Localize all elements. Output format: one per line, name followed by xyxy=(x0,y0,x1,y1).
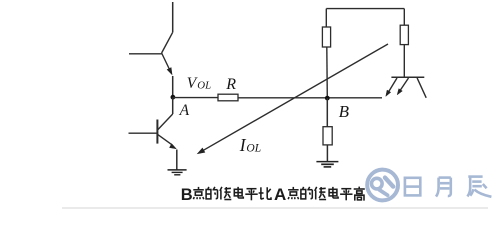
transistor Q2 right slant lead xyxy=(417,78,426,98)
watermark glyph: 月 xyxy=(436,178,451,197)
transistor Q1 emitter with arrow xyxy=(158,135,177,149)
caption glyph: 平 (2nd) xyxy=(340,189,352,201)
wire: emitter to ground xyxy=(176,150,178,170)
wire: top rail down to resistor R4 xyxy=(403,9,405,26)
wire: node A to resistor R xyxy=(173,97,218,99)
svg-text:A: A xyxy=(179,102,190,119)
resistor R4 (right pull-up) xyxy=(400,25,408,44)
svg-text:OL: OL xyxy=(246,143,261,155)
transistor Q1 collector lead xyxy=(158,114,173,130)
caption glyph: 点 (2nd) xyxy=(288,187,299,199)
caption glyph: 比 xyxy=(259,187,271,199)
label VOL xyxy=(187,75,211,92)
wire: node A down to transistor collector xyxy=(172,97,174,114)
wire: resistor R4 down to multi-emitter transistor Q2 xyxy=(403,45,405,78)
caption glyph: 的 (1st) xyxy=(206,187,217,199)
caption text: A (latin) xyxy=(274,185,286,204)
watermark logo: handle stroke xyxy=(379,190,387,195)
caption glyph: 高 xyxy=(354,187,365,201)
watermark glyph: 辰 xyxy=(467,177,491,197)
caption glyph: 电 (1st) xyxy=(234,187,243,198)
label IOL xyxy=(239,135,261,155)
watermark glyph: 日 xyxy=(405,178,420,196)
watermark logo: slash stroke xyxy=(385,178,393,187)
IOL current arrow (long diagonal) xyxy=(198,44,389,154)
wire: horizontal base lead going left (upper-left) xyxy=(129,53,162,55)
emitter arrow of upper transistor pointing to node A branch xyxy=(162,53,172,75)
resistor R3 (node B to ground) xyxy=(323,127,332,145)
caption glyph: 电 (2nd) xyxy=(329,187,338,198)
label R xyxy=(225,76,236,93)
transistor Q1 base bar xyxy=(156,120,158,144)
label A xyxy=(179,102,190,119)
svg-text:A: A xyxy=(274,185,286,204)
transistor Q1 base lead xyxy=(129,132,158,134)
faint bottom rule xyxy=(62,207,488,209)
resistor R xyxy=(218,94,238,101)
wire: resistor R3 to ground xyxy=(326,145,328,162)
transistor Q2 emitter 1 with arrow xyxy=(386,78,397,96)
caption glyph: 点 (1st) xyxy=(193,187,204,199)
watermark logo: inner small circle xyxy=(372,178,383,189)
svg-text:B: B xyxy=(181,186,193,204)
caption glyph: 的 (2nd) xyxy=(301,187,312,199)
node B junction dot xyxy=(325,96,330,101)
wire: top emitter lead vertical (upper-left transistor) xyxy=(172,2,174,32)
transistor Q2 emitter 2 with arrow xyxy=(397,78,408,95)
svg-text:OL: OL xyxy=(197,79,211,91)
svg-text:R: R xyxy=(225,76,236,93)
ground (left, under Q1) xyxy=(168,170,187,175)
svg-text:V: V xyxy=(187,75,198,92)
wire: top rail down to resistor R2 xyxy=(325,9,327,27)
wire: vertical from emitter arrow down to node A xyxy=(172,76,174,97)
watermark logo: outer circle xyxy=(367,170,398,201)
wire: slant from vertical down-left to junction xyxy=(162,32,173,53)
caption glyph: 低 (2nd) xyxy=(315,187,326,200)
caption glyph: 低 (1st) xyxy=(220,187,231,200)
svg-text:B: B xyxy=(339,102,350,121)
ground (under R3) xyxy=(316,162,338,167)
resistor R2 (left pull-up) xyxy=(322,27,330,47)
caption glyph: 平 (1st) xyxy=(245,189,257,201)
caption text: B (latin) xyxy=(181,186,193,204)
label B xyxy=(339,102,350,121)
wire: resistor R to node B and on to right end xyxy=(238,97,382,99)
wire: resistor R2 down to node B xyxy=(326,47,329,98)
transistor Q2 base bar (multi-emitter input) xyxy=(391,76,424,78)
wire: top rail connecting both pull-up resistors xyxy=(326,8,404,10)
node A junction dot xyxy=(171,95,176,100)
wire: node B down to resistor R3 xyxy=(326,98,328,127)
